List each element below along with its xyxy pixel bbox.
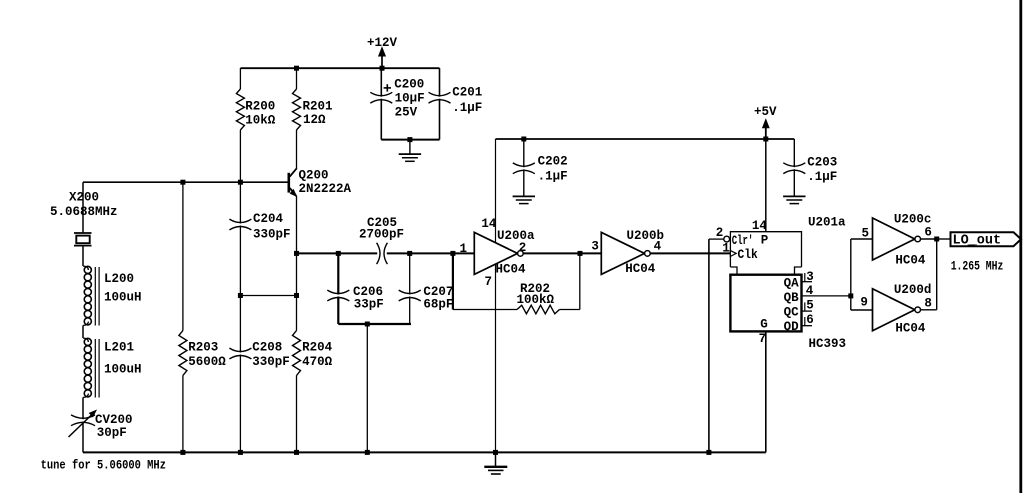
svg-text:U200a: U200a — [497, 229, 535, 243]
svg-text:9: 9 — [860, 295, 868, 309]
svg-text:25V: 25V — [395, 106, 418, 120]
svg-text:HC04: HC04 — [895, 322, 926, 336]
svg-text:.1µF: .1µF — [807, 170, 837, 184]
svg-text:2N2222A: 2N2222A — [299, 182, 352, 196]
svg-text:10µF: 10µF — [395, 91, 425, 105]
capacitor C208 330pF — [239, 296, 241, 353]
wire C206/C207 bottom tie — [338, 323, 411, 325]
svg-text:4: 4 — [806, 284, 814, 298]
svg-text:5.0688MHz: 5.0688MHz — [50, 205, 118, 219]
svg-text:C204: C204 — [253, 212, 284, 226]
svg-text:R204: R204 — [302, 340, 333, 354]
svg-text:R200: R200 — [245, 100, 275, 114]
svg-text:68pF: 68pF — [423, 297, 453, 311]
wire feedback bottom left — [453, 309, 517, 311]
svg-text:X200: X200 — [69, 191, 99, 205]
pin stub QD pin 6 — [802, 325, 813, 327]
wire to LO_out port — [937, 238, 951, 240]
svg-text:+12V: +12V — [367, 36, 398, 50]
counter U201a HC393 body box — [730, 275, 801, 332]
svg-text:330pF: 330pF — [252, 355, 290, 369]
capacitor C201 .1uF — [439, 68, 441, 97]
svg-text:5600Ω: 5600Ω — [188, 355, 226, 369]
svg-text:HC04: HC04 — [895, 254, 926, 268]
svg-text:Q200: Q200 — [299, 168, 329, 182]
wire C208-R204 tie — [240, 295, 296, 297]
resistor R204 470 — [296, 196, 298, 330]
wire U200c output — [921, 238, 937, 240]
svg-text:P: P — [761, 234, 769, 248]
svg-text:.1µF: .1µF — [538, 170, 568, 184]
svg-text:U200b: U200b — [627, 229, 665, 243]
svg-text:330pF: 330pF — [253, 228, 291, 242]
capacitor C202 .1uF — [523, 139, 525, 167]
wire C205 to U200a input — [387, 252, 475, 254]
svg-text:2: 2 — [716, 226, 724, 240]
svg-text:QD: QD — [784, 320, 800, 334]
svg-text:L200: L200 — [104, 272, 134, 286]
wire clear pin 2 — [709, 238, 724, 240]
port flag LO_out — [951, 232, 1022, 246]
resistor R200 — [239, 68, 241, 89]
svg-text:5: 5 — [806, 298, 814, 312]
svg-text:Clk: Clk — [738, 247, 758, 262]
inductor L200 100uH — [83, 266, 88, 270]
svg-text:3: 3 — [591, 240, 599, 254]
resistor R202 100k — [517, 305, 560, 314]
node dot base/R203 — [180, 180, 185, 185]
svg-text:1: 1 — [722, 241, 730, 255]
counter U201a HC393 control box — [730, 232, 801, 267]
wire clear to ground rail — [708, 239, 710, 452]
svg-text:6: 6 — [806, 313, 814, 327]
svg-text:G: G — [760, 318, 768, 332]
svg-text:12Ω: 12Ω — [303, 113, 326, 127]
crystal X200 5.0688MHz — [82, 182, 84, 233]
svg-text:C201: C201 — [452, 85, 482, 99]
node dot rail/+12V — [380, 66, 385, 71]
svg-text:HC04: HC04 — [496, 263, 527, 277]
op-amp U200a inverter HC04 — [474, 232, 517, 274]
svg-text:U200d: U200d — [894, 283, 932, 297]
capacitor C204 330pF — [239, 182, 241, 223]
node dot rail/C206 branch — [365, 450, 370, 455]
node dot feedback return — [578, 251, 583, 256]
node dot tie left — [238, 293, 243, 298]
svg-text:30pF: 30pF — [97, 426, 127, 440]
wire base node — [83, 181, 288, 183]
svg-text:QB: QB — [784, 291, 800, 305]
svg-text:2700pF: 2700pF — [359, 228, 404, 242]
power rail +5V — [496, 138, 795, 140]
resistor R201 — [296, 68, 298, 89]
svg-text:8: 8 — [924, 296, 932, 310]
svg-text:R201: R201 — [303, 100, 333, 114]
ground rail — [83, 451, 766, 453]
op-amp U200c inverter HC04 — [873, 218, 915, 260]
svg-text:100uH: 100uH — [104, 363, 142, 377]
op-amp U200b inverter HC04 — [601, 232, 644, 274]
svg-text:5: 5 — [862, 226, 870, 240]
svg-text:CV200: CV200 — [95, 413, 133, 427]
svg-text:C202: C202 — [538, 154, 568, 168]
node dot emitter/signal — [294, 251, 299, 256]
svg-text:C203: C203 — [807, 155, 837, 169]
variable capacitor CV200 30pF — [82, 398, 84, 420]
node dot 5V/C202 — [521, 137, 526, 142]
svg-text:HC04: HC04 — [625, 262, 656, 276]
node dot rail/R203 — [180, 450, 185, 455]
wire U200a out to U200b in — [523, 252, 601, 254]
node dot rail/R204 — [294, 450, 299, 455]
node dot C207 tap — [407, 251, 412, 256]
svg-text:7: 7 — [485, 275, 493, 289]
wire C200/C201 bottom — [381, 139, 439, 141]
+12V power arrow — [381, 51, 383, 69]
power rail +12V — [240, 67, 439, 69]
wire tie to ground rail — [366, 324, 368, 452]
svg-text:C200: C200 — [394, 77, 424, 91]
svg-text:7: 7 — [759, 332, 767, 346]
power pin line U200a pins 14/7 — [495, 139, 497, 452]
wire feedback down — [452, 253, 454, 309]
clock input triangle marker — [730, 251, 736, 257]
capacitor C206 33pF — [337, 253, 339, 294]
svg-text:LO_out: LO_out — [953, 233, 1002, 248]
node dot rail/pin7 U200a — [493, 450, 498, 455]
wire emitter to C205 — [297, 252, 378, 254]
ground below C203 — [793, 195, 795, 198]
svg-text:3: 3 — [806, 270, 814, 284]
sheet border right edge — [1019, 0, 1022, 493]
node dot base/R200/C204 — [238, 180, 243, 185]
svg-text:100uH: 100uH — [104, 291, 142, 305]
wire to U200c input — [851, 238, 873, 240]
svg-text:U200c: U200c — [894, 213, 932, 227]
capacitor C207 68pF — [409, 253, 411, 294]
svg-text:100kΩ: 100kΩ — [517, 293, 555, 307]
node dot C200 ground — [407, 137, 412, 142]
node dot QB net — [848, 293, 853, 298]
wire feedback up — [579, 253, 581, 309]
node dot C206 tap — [336, 251, 341, 256]
svg-text:14: 14 — [481, 217, 497, 231]
wire G pin 7 to ground rail — [765, 331, 767, 452]
svg-text:U201a: U201a — [808, 216, 846, 230]
svg-text:33pF: 33pF — [354, 297, 384, 311]
svg-text:C208: C208 — [252, 340, 282, 354]
node dot feedback tap — [450, 251, 455, 256]
inductor L201 100uH — [83, 338, 88, 342]
svg-text:.1µF: .1µF — [452, 101, 482, 115]
pin stub QA pin 3 — [802, 281, 813, 283]
ground below C202 — [523, 195, 525, 198]
resistor R203 5600 — [182, 182, 184, 330]
node dot 5V/arrow — [763, 137, 768, 142]
wire U200d output up — [921, 309, 937, 311]
pin stub QC pin 5 — [802, 310, 813, 312]
clear bubble pin 2 — [724, 236, 730, 242]
plus sign C200 polarity — [384, 87, 391, 89]
node dot bottom tie — [365, 322, 370, 327]
svg-text:HC393: HC393 — [809, 337, 847, 351]
capacitor C203 .1uF — [793, 139, 795, 167]
svg-text:QC: QC — [784, 306, 800, 320]
wire QB net vertical — [850, 239, 852, 310]
capacitor C200 10uF 25V — [380, 68, 382, 97]
node dot rail/C208 — [238, 450, 243, 455]
svg-text:1: 1 — [460, 242, 468, 256]
svg-text:+5V: +5V — [754, 105, 777, 119]
node dot tie right — [294, 293, 299, 298]
node dot outputs joined — [934, 237, 939, 242]
arrow CV200 adjustment — [69, 413, 94, 437]
wire U200b out to HC393 clk — [650, 252, 730, 254]
wire L200-L201 — [82, 326, 84, 339]
wire +5V to HC393 pin 14 — [765, 139, 767, 232]
op-amp U200d inverter HC04 — [873, 289, 915, 331]
node dot rail/R201 — [294, 66, 299, 71]
svg-text:R203: R203 — [188, 340, 218, 354]
capacitor C205 2700pF — [377, 243, 380, 264]
svg-text:470Ω: 470Ω — [302, 355, 333, 369]
svg-text:1.265 MHz: 1.265 MHz — [951, 259, 1004, 274]
pin QB pin 4 wire — [802, 295, 851, 297]
svg-text:L201: L201 — [104, 341, 134, 355]
+5V power arrow — [765, 127, 767, 139]
ground symbol main — [495, 452, 497, 466]
wire feedback bottom right — [560, 309, 580, 311]
wire to U200d input — [851, 309, 873, 311]
node dot rail/clear line — [706, 450, 711, 455]
svg-text:10kΩ: 10kΩ — [245, 113, 276, 127]
ground below C200 — [409, 140, 411, 155]
svg-text:QA: QA — [784, 276, 800, 290]
svg-text:tune for 5.06000 MHz: tune for 5.06000 MHz — [41, 459, 166, 473]
svg-text:6: 6 — [924, 225, 932, 239]
transistor Q200 2N2222A — [287, 173, 290, 193]
